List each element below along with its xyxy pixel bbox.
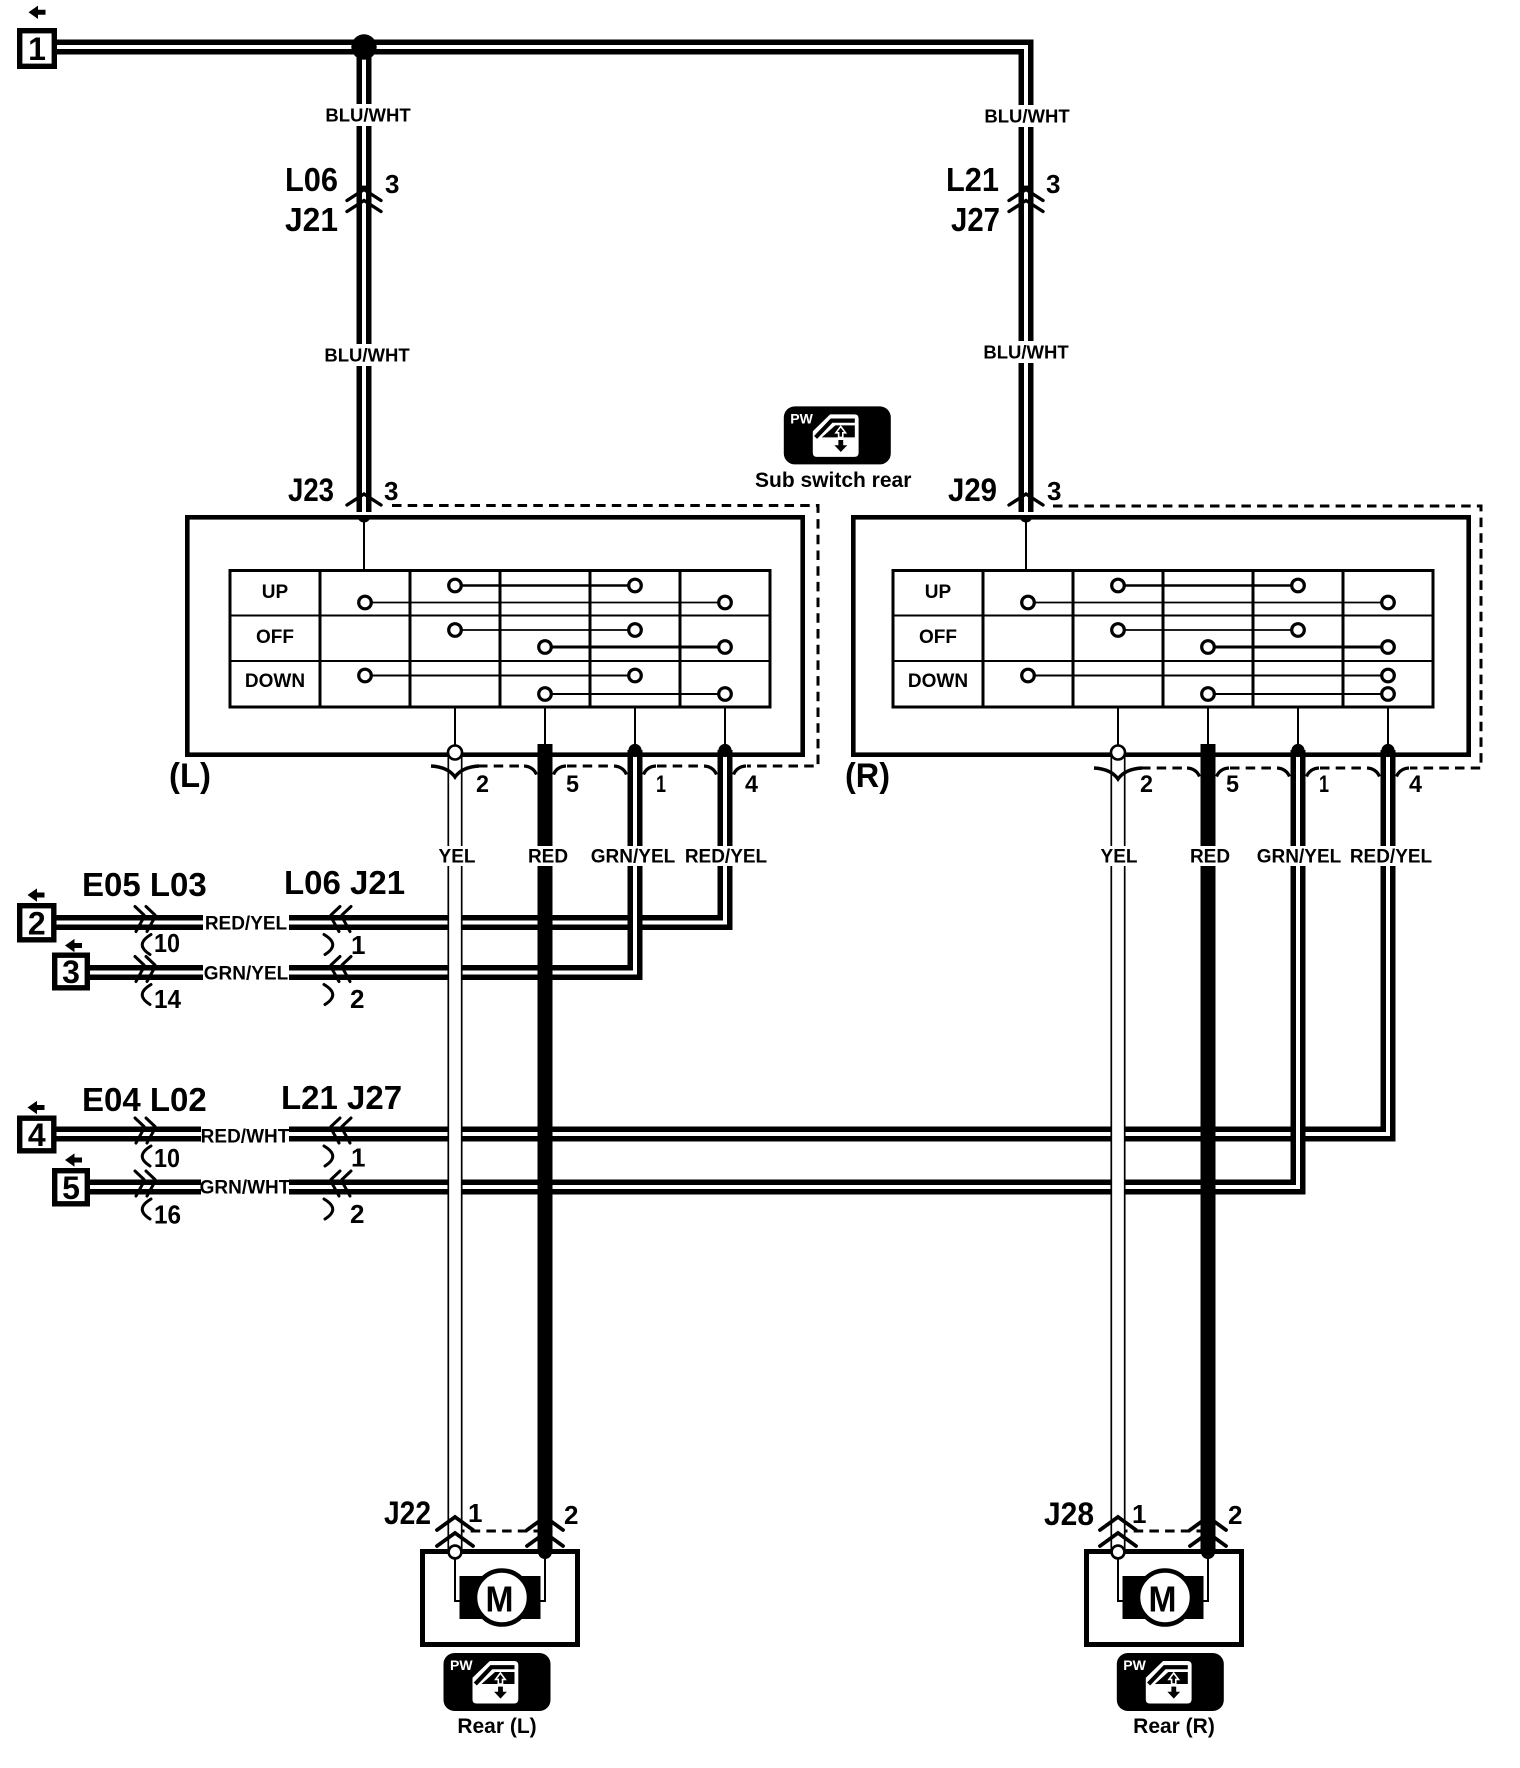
svg-text:10: 10 [154, 928, 180, 958]
svg-text:BLU/WHT: BLU/WHT [325, 104, 411, 125]
wire YEL J23 pin 2 to motor J22 pin 1 [448, 756, 463, 1551]
svg-text:OFF: OFF [256, 627, 294, 648]
svg-text:DOWN: DOWN [908, 671, 968, 692]
connector J23 entry chevron [347, 494, 381, 505]
svg-text:GRN/YEL: GRN/YEL [1257, 847, 1342, 868]
svg-text:5: 5 [62, 1170, 80, 1206]
svg-text:Sub switch rear: Sub switch rear [755, 469, 911, 492]
svg-text:4: 4 [28, 1117, 46, 1153]
connector J23 dashed outline [392, 506, 818, 767]
J28 terminal 2 [1201, 1545, 1215, 1559]
J29 pin 2 terminal [1111, 746, 1125, 760]
svg-text:3: 3 [384, 476, 398, 506]
svg-text:RED: RED [1190, 847, 1230, 868]
label GRN/YEL wire 3 [203, 963, 289, 983]
wire RED J23 pin 5 to motor J22 pin 2 [538, 744, 553, 1552]
switch J23 body [187, 517, 802, 754]
wire GRN/WHT from [5] to J29 pin 1 [89, 750, 1298, 1187]
junction node [351, 34, 376, 59]
svg-text:2: 2 [350, 984, 364, 1014]
connector J28 chevrons [1100, 1517, 1136, 1546]
svg-text:2: 2 [476, 771, 489, 798]
off-page connector box 1 [20, 31, 55, 67]
svg-text:1: 1 [656, 771, 666, 798]
svg-text:M: M [486, 1579, 514, 1620]
connector J28 dashed line [1118, 1530, 1208, 1533]
svg-text:1: 1 [1319, 771, 1329, 798]
svg-text:1: 1 [468, 1498, 482, 1528]
J23 contact table [230, 571, 770, 708]
icon PW sub switch rear [784, 406, 891, 464]
label BLU/WHT right lower [984, 341, 1068, 363]
svg-text:J21: J21 [285, 201, 338, 238]
off-page connector box 5 [55, 1171, 88, 1204]
wire BLU/WHT branch to J23 pin 3 [357, 47, 372, 512]
svg-text:E05 L03: E05 L03 [82, 866, 207, 903]
svg-text:RED/YEL: RED/YEL [685, 847, 768, 868]
arrow to sheet 3 [65, 939, 82, 952]
svg-text:L06 J21: L06 J21 [284, 864, 405, 901]
svg-text:GRN/WHT: GRN/WHT [200, 1178, 291, 1199]
arrow to sheet 1 [29, 6, 46, 19]
off-page connector box 2 [20, 906, 54, 940]
connector J22 chevrons [437, 1517, 473, 1546]
J22 terminal 2 [538, 1545, 552, 1559]
J22 terminal 1 [449, 1546, 462, 1559]
motor M rear right window (J28) [1087, 1552, 1242, 1645]
svg-text:RED/YEL: RED/YEL [205, 914, 288, 935]
connector J28 pin hooks [1094, 768, 1142, 779]
svg-text:GRN/YEL: GRN/YEL [204, 964, 289, 985]
connector J29 dashed outline [1053, 506, 1481, 768]
arrow to sheet 5 [65, 1153, 82, 1166]
J23 pin 3 entry [358, 516, 371, 523]
svg-text:DOWN: DOWN [245, 671, 305, 692]
svg-text:J22: J22 [384, 1495, 431, 1531]
svg-text:Rear (R): Rear (R) [1133, 1715, 1215, 1738]
label YEL right [1097, 846, 1141, 866]
svg-text:2: 2 [564, 1500, 578, 1530]
svg-text:BLU/WHT: BLU/WHT [324, 344, 410, 365]
svg-text:10: 10 [154, 1143, 180, 1173]
J29 UP contacts [1118, 584, 1298, 587]
svg-text:J28: J28 [1044, 1496, 1094, 1532]
svg-text:UP: UP [262, 582, 289, 603]
svg-text:BLU/WHT: BLU/WHT [983, 341, 1069, 362]
svg-text:RED/WHT: RED/WHT [201, 1127, 290, 1148]
svg-text:3: 3 [1047, 476, 1061, 506]
label RED/YEL right [1352, 846, 1430, 866]
svg-text:2: 2 [350, 1199, 364, 1229]
svg-text:16: 16 [154, 1200, 181, 1230]
svg-text:PW: PW [1123, 1657, 1146, 1673]
svg-text:(R): (R) [845, 757, 890, 795]
svg-text:(L): (L) [169, 757, 211, 795]
svg-text:3: 3 [1046, 169, 1060, 199]
svg-text:L21 J27: L21 J27 [281, 1079, 402, 1116]
J23 UP contacts [455, 584, 635, 587]
J29 pin terminal dots [1201, 744, 1214, 757]
wire YEL J29 pin 2 to motor J28 pin 1 [1111, 756, 1126, 1551]
svg-text:14: 14 [154, 984, 182, 1014]
svg-text:5: 5 [566, 771, 579, 798]
arrow to sheet 2 [28, 888, 45, 901]
connector L06/J21 on BLU/WHT [347, 190, 381, 212]
label BLU/WHT left lower [325, 344, 409, 366]
svg-text:PW: PW [790, 410, 813, 426]
label GRN/YEL left [594, 846, 672, 866]
label RED right [1188, 846, 1232, 866]
J29 DOWN contacts [1028, 675, 1388, 677]
svg-text:3: 3 [62, 954, 80, 990]
off-page connector box 4 [20, 1118, 54, 1151]
svg-text:J23: J23 [288, 472, 334, 508]
icon PW rear right [1117, 1653, 1224, 1711]
svg-text:L21: L21 [946, 161, 999, 198]
J23 pin 2 terminal [448, 746, 462, 760]
connector J29 entry chevron [1009, 494, 1043, 505]
arrow to sheet 4 [28, 1101, 45, 1114]
label GRN/YEL right [1260, 846, 1338, 866]
svg-text:1: 1 [28, 31, 46, 67]
svg-text:Rear (L): Rear (L) [457, 1715, 536, 1738]
J23 DOWN contacts [365, 675, 635, 677]
J29 OFF contacts [1118, 629, 1298, 631]
wire RED/YEL from [2] to J23 pin 4 [56, 750, 725, 923]
connector J22 dashed line [455, 1530, 545, 1533]
J23 OFF contacts [455, 629, 635, 631]
motor M rear left window (J22) [423, 1552, 578, 1645]
label RED/YEL wire 2 [203, 913, 289, 933]
J29 pin stubs [1118, 707, 1388, 757]
label GRN/WHT wire 5 [201, 1177, 289, 1197]
off-page connector box 3 [55, 955, 88, 988]
svg-text:PW: PW [450, 1657, 473, 1673]
svg-text:L06: L06 [285, 161, 338, 198]
svg-text:5: 5 [1226, 771, 1239, 798]
wire GRN/YEL from [3] to J23 pin 1 [89, 750, 635, 973]
svg-text:2: 2 [1228, 1500, 1242, 1530]
svg-text:GRN/YEL: GRN/YEL [591, 847, 676, 868]
svg-text:BLU/WHT: BLU/WHT [984, 105, 1070, 126]
svg-text:2: 2 [28, 905, 46, 941]
svg-text:J27: J27 [951, 201, 1000, 238]
connector J23 pin hooks [431, 766, 479, 777]
svg-text:3: 3 [385, 169, 399, 199]
label RED left [526, 846, 570, 866]
svg-text:1: 1 [351, 930, 365, 960]
label BLU/WHT left upper [326, 104, 410, 126]
label RED/YEL left [687, 846, 765, 866]
icon PW rear left [444, 1653, 551, 1711]
label RED/WHT wire 4 [201, 1126, 289, 1146]
J28 terminal 1 [1112, 1546, 1125, 1559]
svg-text:1: 1 [1132, 1499, 1146, 1529]
wire RED/WHT from [4] to J29 pin 4 [56, 750, 1388, 1134]
svg-text:YEL: YEL [1101, 847, 1138, 868]
svg-text:RED/YEL: RED/YEL [1350, 847, 1433, 868]
svg-text:J29: J29 [948, 472, 997, 508]
svg-text:2: 2 [1140, 771, 1153, 798]
label YEL left [435, 846, 479, 866]
svg-text:UP: UP [925, 582, 952, 603]
svg-text:E04 L02: E04 L02 [82, 1081, 207, 1118]
connector L21/J27 on BLU/WHT [1009, 190, 1043, 212]
svg-text:OFF: OFF [919, 627, 957, 648]
wire RED J29 pin 5 to motor J28 pin 2 [1201, 744, 1216, 1552]
switch J29 body [853, 517, 1468, 754]
svg-text:RED: RED [528, 847, 568, 868]
J29 pin 3 entry [1020, 516, 1033, 523]
svg-text:M: M [1149, 1579, 1177, 1620]
svg-text:4: 4 [1409, 771, 1423, 798]
svg-text:4: 4 [745, 771, 759, 798]
J23 pin stubs [455, 707, 725, 757]
J29 contact table [893, 571, 1433, 708]
svg-text:YEL: YEL [439, 847, 476, 868]
J23 pin terminal dots [538, 744, 551, 757]
wire BLU/WHT bus from [1] to J29 pin 3 [57, 47, 1026, 512]
label BLU/WHT right upper [985, 105, 1069, 127]
svg-text:1: 1 [351, 1143, 365, 1173]
